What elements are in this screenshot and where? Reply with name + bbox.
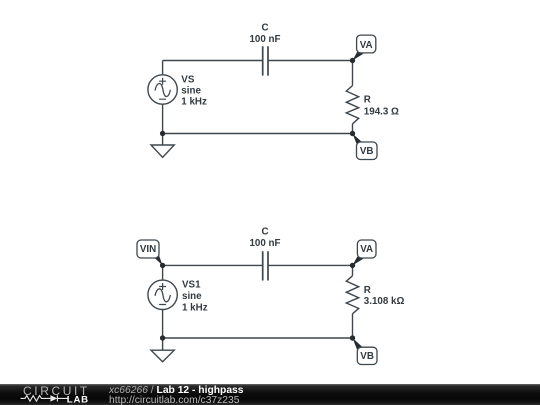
svg-text:R: R bbox=[364, 285, 371, 296]
svg-text:http://circuitlab.com/c37z235: http://circuitlab.com/c37z235 bbox=[109, 395, 240, 405]
svg-text:sine: sine bbox=[181, 86, 201, 97]
svg-text:C: C bbox=[261, 22, 268, 33]
svg-text:R: R bbox=[364, 94, 371, 105]
svg-text:VS1: VS1 bbox=[182, 280, 201, 291]
svg-text:sine: sine bbox=[182, 291, 202, 302]
svg-text:1 kHz: 1 kHz bbox=[181, 96, 207, 107]
svg-text:100 nF: 100 nF bbox=[249, 238, 280, 249]
svg-text:VS: VS bbox=[181, 74, 195, 85]
svg-text:VIN: VIN bbox=[140, 244, 156, 255]
svg-text:100 nF: 100 nF bbox=[249, 34, 280, 45]
svg-text:LAB: LAB bbox=[67, 395, 89, 405]
svg-text:194.3 Ω: 194.3 Ω bbox=[364, 106, 399, 117]
svg-text:VB: VB bbox=[360, 146, 374, 157]
svg-text:1 kHz: 1 kHz bbox=[182, 302, 208, 313]
svg-text:C: C bbox=[261, 227, 268, 238]
svg-text:VA: VA bbox=[360, 40, 373, 51]
svg-text:VA: VA bbox=[360, 244, 373, 255]
svg-text:3.108 kΩ: 3.108 kΩ bbox=[364, 296, 405, 307]
svg-text:VB: VB bbox=[360, 351, 374, 362]
